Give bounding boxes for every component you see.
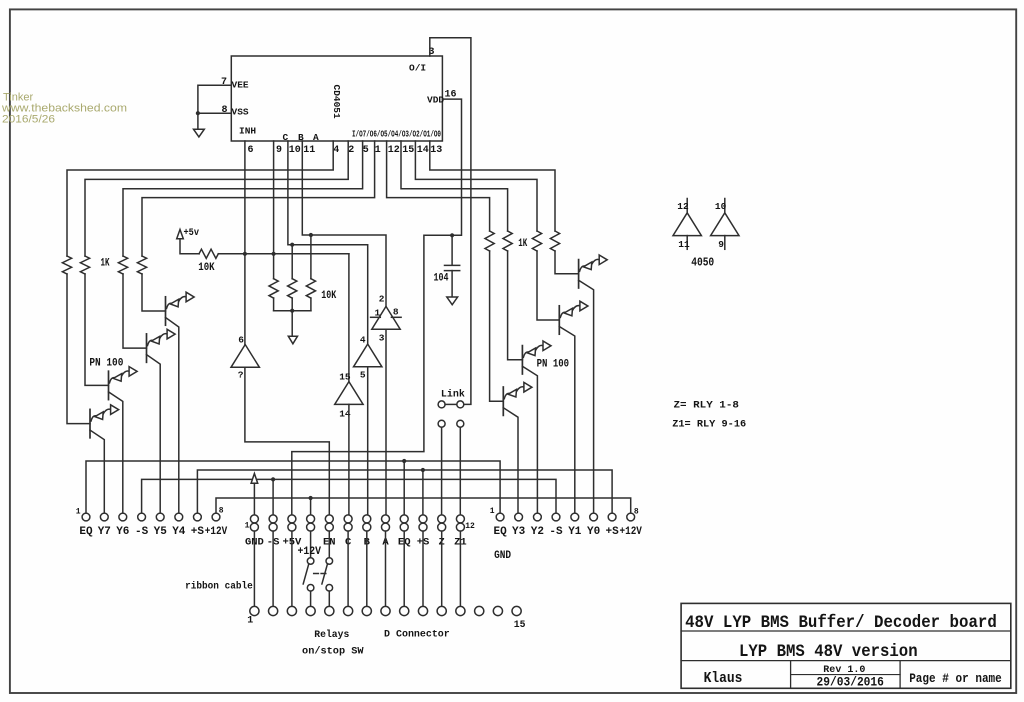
switch S2 lever xyxy=(322,564,328,584)
switch S1 bottom contact xyxy=(307,585,314,592)
connector P3 pin +S xyxy=(608,513,616,521)
header P2 col3 bottom pad xyxy=(288,523,296,531)
net -S horizontal xyxy=(142,479,556,513)
resistor R9 10K xyxy=(199,249,218,258)
buffer U2B triangle (pins 4/5) xyxy=(354,344,382,367)
wire VSS pin8 xyxy=(198,112,231,114)
svg-text:Y6: Y6 xyxy=(116,526,129,538)
svg-text:on/stop SW: on/stop SW xyxy=(302,646,364,658)
connector P1 pin Y5 xyxy=(156,513,164,521)
transistor Q3 PN100 xyxy=(109,367,138,513)
svg-text:LYP BMS 48V version: LYP BMS 48V version xyxy=(739,642,918,662)
header P2 col5 top pad xyxy=(325,515,333,523)
connector P3 pin -S xyxy=(552,513,560,521)
connector P3 pin +12V xyxy=(627,513,635,521)
wire R6 to Q6 base xyxy=(508,251,523,360)
connector J1 pin 2 xyxy=(269,606,278,615)
junction VDD/capacitor xyxy=(450,233,454,237)
svg-text:D Connector: D Connector xyxy=(384,629,450,641)
svg-text:+12V: +12V xyxy=(205,526,228,538)
title block row divider 1 xyxy=(681,630,1011,632)
connector P1 pin Y7 xyxy=(100,513,108,521)
connector P1 pin EQ xyxy=(82,513,90,521)
svg-text:10: 10 xyxy=(715,201,727,212)
connector P3 pin Y1 xyxy=(571,513,579,521)
connector J1 pin 13 xyxy=(475,606,484,615)
wire rail to ground xyxy=(291,311,293,337)
title block column dividers xyxy=(791,661,901,689)
svg-text:+5v: +5v xyxy=(184,227,200,239)
wire U1 pin2 to R2 xyxy=(85,141,348,256)
resistor R11 10K xyxy=(288,279,297,298)
svg-text:Z= RLY 1-8: Z= RLY 1-8 xyxy=(674,400,739,412)
capacitor C1 plates xyxy=(445,265,460,270)
svg-text:9: 9 xyxy=(276,145,282,156)
resistor R5 1K xyxy=(485,231,494,251)
connector J1 pin 6 xyxy=(344,606,353,615)
capacitor C1 bottom lead xyxy=(451,271,453,297)
title block box xyxy=(681,603,1011,688)
switch S1 lever xyxy=(303,564,309,584)
transistor Q5 PN100 xyxy=(503,382,532,513)
wire Link to Z1 column xyxy=(459,427,461,515)
transistor Q1 PN100 xyxy=(166,292,195,513)
wire U1 pin10 to buffer U2B (net B) xyxy=(288,141,368,344)
header P2 col1 top pad xyxy=(250,515,258,523)
U2D output stub xyxy=(686,236,688,250)
connector J1 pin 1 xyxy=(250,606,259,615)
connector J1 pin 8 xyxy=(381,606,390,615)
header P2 col11 top pad xyxy=(438,515,446,523)
junction EQ at header xyxy=(402,459,406,463)
wire U2A output to connector A xyxy=(385,329,387,515)
svg-text:8: 8 xyxy=(219,507,224,516)
connector P1 pin Y4 xyxy=(175,513,183,521)
transistor Q4 PN100 xyxy=(90,405,119,513)
wire U1 pin1 to R4 xyxy=(142,141,375,256)
svg-text:15: 15 xyxy=(514,620,526,631)
header P2 col5 bottom pad xyxy=(325,523,333,531)
svg-text:2: 2 xyxy=(379,294,385,305)
svg-text:3: 3 xyxy=(379,333,385,344)
ground symbol at C1 xyxy=(447,297,458,305)
svg-text:6: 6 xyxy=(248,145,254,156)
junction +S at header xyxy=(421,468,425,472)
wire +S to header xyxy=(422,470,424,515)
svg-text:CD4051: CD4051 xyxy=(331,85,342,120)
wire +12V to header xyxy=(310,498,312,515)
header P2 col9 top pad xyxy=(400,515,408,523)
header P2 col2 top pad xyxy=(269,515,277,523)
switch gang dashed link xyxy=(314,573,326,575)
svg-text:1: 1 xyxy=(490,507,495,516)
connector J1 pin 11 xyxy=(437,606,446,615)
header P2 col8 top pad xyxy=(382,515,390,523)
wire EQ to header xyxy=(403,461,405,515)
svg-text:104: 104 xyxy=(434,273,449,285)
U2E output stub xyxy=(724,236,726,250)
resistor R12 10K xyxy=(306,279,315,298)
svg-text:VDD: VDD xyxy=(427,95,444,106)
svg-text:1: 1 xyxy=(247,616,253,627)
svg-text:+12V: +12V xyxy=(620,526,643,538)
wire U1 pin5 to R3 xyxy=(123,141,363,256)
buffer U2A triangle (pins 2/1/8/3) xyxy=(372,306,400,329)
svg-text:ribbon cable: ribbon cable xyxy=(185,581,253,593)
junction -S at header xyxy=(271,477,275,481)
header P2 col6 top pad xyxy=(344,515,352,523)
wire switch S1 to D connector xyxy=(310,591,312,606)
ground symbol at VSS xyxy=(194,129,205,137)
svg-text:Link: Link xyxy=(441,389,465,401)
connector J1 pin 14 xyxy=(493,606,502,615)
wire P2 col6 to D connector xyxy=(347,531,349,606)
Link pad top-left xyxy=(438,401,445,408)
wire net C into buffer U2C xyxy=(348,254,350,382)
net +S horizontal xyxy=(197,470,612,513)
U2A pin8 tick xyxy=(391,316,401,318)
title block row divider 2 xyxy=(681,660,1011,662)
+5v supply arrow xyxy=(177,230,184,239)
wire U2C output to connector C xyxy=(348,404,350,515)
U2A pin1 tick xyxy=(371,316,381,318)
resistor R6 1K xyxy=(503,231,512,251)
transistor Q6 PN100 xyxy=(522,341,551,513)
svg-text:Relays: Relays xyxy=(314,629,349,641)
svg-text:EQ: EQ xyxy=(79,526,93,538)
R11 bottom lead xyxy=(291,298,293,311)
svg-text:4050: 4050 xyxy=(691,257,714,270)
svg-text:VSS: VSS xyxy=(232,107,249,118)
svg-text:7: 7 xyxy=(221,77,227,88)
svg-text:INH: INH xyxy=(239,126,256,137)
svg-text:8: 8 xyxy=(634,508,639,517)
svg-text:Y1: Y1 xyxy=(568,526,582,538)
transistor Q8 PN100 xyxy=(579,255,608,513)
svg-text:GND: GND xyxy=(494,550,511,562)
svg-text:Y4: Y4 xyxy=(172,526,186,538)
connector P3 pin EQ xyxy=(496,513,504,521)
resistor R4 1K xyxy=(137,256,146,274)
resistor R10 10K xyxy=(269,279,278,298)
wire U1 pin11 to buffer U2A (net A) xyxy=(302,141,386,306)
header P2 col10 top pad xyxy=(419,515,427,523)
svg-text:Page # or name: Page # or name xyxy=(909,671,1002,686)
junction VEE/VSS xyxy=(196,111,200,115)
wire P2 col4 to switch S1 xyxy=(310,531,312,558)
Link pad top-right xyxy=(457,401,464,408)
header P2 col1 bottom pad xyxy=(250,523,258,531)
wire P2 col5 to switch S2 xyxy=(328,531,330,558)
switch S1 top contact xyxy=(307,558,314,565)
wire U1 pin9 stub xyxy=(273,141,275,254)
wire U1 pin6 INH to EN connector pin xyxy=(245,141,329,515)
svg-text:15: 15 xyxy=(402,145,414,156)
connector J1 pin 5 xyxy=(325,606,334,615)
wire R5 to Q5 base xyxy=(490,251,504,401)
resistor R7 1K xyxy=(532,231,541,251)
R10 bottom lead xyxy=(273,298,275,311)
wire -S to header xyxy=(272,479,274,515)
Link pad bottom-right xyxy=(457,420,464,427)
resistor R8 1K xyxy=(550,231,559,251)
header P2 col7 top pad xyxy=(363,515,371,523)
wire U1 pin16 VDD to +5V connector pin xyxy=(292,99,462,515)
wire P2 col3 to D connector xyxy=(291,531,293,606)
svg-text:10K: 10K xyxy=(198,262,215,274)
svg-text:14: 14 xyxy=(417,145,429,156)
header P2 col12 bottom pad xyxy=(456,523,464,531)
switch S2 bottom contact xyxy=(326,585,333,592)
junction net A at R12 xyxy=(309,233,313,237)
wire pulldown common rail xyxy=(274,310,311,312)
wire P2 col12 to D connector xyxy=(459,531,461,606)
resistor R1 1K xyxy=(62,256,71,274)
svg-text:+S: +S xyxy=(191,526,205,538)
wire R3 to Q2 base xyxy=(123,274,147,348)
capacitor C1 top lead xyxy=(451,235,453,265)
wire P2 col11 to D connector xyxy=(441,531,443,606)
connector P1 pin +12V xyxy=(212,513,220,521)
header P2 col11 bottom pad xyxy=(438,523,446,531)
wire VEE pin7 to VSS junction xyxy=(198,85,231,113)
junction net B at R11 xyxy=(290,243,294,247)
R11 top lead xyxy=(291,245,293,279)
header P2 col4 bottom pad xyxy=(307,523,315,531)
connector J1 pin 3 xyxy=(287,606,296,615)
svg-text:8: 8 xyxy=(393,307,399,318)
buffer U2F triangle (pins 6/7) on INH line xyxy=(231,345,259,368)
wire U1 pin4 to R1 xyxy=(67,141,333,256)
svg-text:12: 12 xyxy=(388,145,400,156)
svg-text:VEE: VEE xyxy=(232,80,249,91)
svg-text:9: 9 xyxy=(718,239,724,250)
connector J1 pin 7 xyxy=(362,606,371,615)
svg-text:1: 1 xyxy=(245,522,250,531)
transistor Q2 PN100 xyxy=(147,329,176,513)
svg-text:29/03/2016: 29/03/2016 xyxy=(817,675,885,690)
connector P3 pin Y0 xyxy=(590,513,598,521)
junction net C at pin9 xyxy=(272,252,276,256)
connector P1 pin +S xyxy=(194,513,202,521)
wire R7 to Q7 base xyxy=(537,251,559,320)
svg-text:1: 1 xyxy=(375,145,381,156)
wire U1 pin15 to R6 xyxy=(401,141,508,231)
wire P2 col8 to D connector xyxy=(385,531,387,606)
svg-text:15: 15 xyxy=(339,372,351,383)
wire R4 to Q1 base xyxy=(142,274,166,311)
R12 bottom lead xyxy=(310,298,312,311)
wire +5v to R9 xyxy=(180,239,199,254)
wire P2 col2 to D connector xyxy=(272,531,274,606)
wire R8 to Q8 base xyxy=(555,251,579,274)
connector J1 pin 9 xyxy=(400,606,409,615)
header P2 col7 bottom pad xyxy=(363,523,371,531)
svg-text:?: ? xyxy=(238,370,244,381)
wire U1 pin12 to R5 xyxy=(387,141,490,231)
svg-text:Y3: Y3 xyxy=(512,526,526,538)
resistor R2 1K xyxy=(80,256,89,274)
header P2 col4 top pad xyxy=(307,515,315,523)
header P2 col2 bottom pad xyxy=(269,523,277,531)
header P2 col3 top pad xyxy=(288,515,296,523)
svg-text:O/I: O/I xyxy=(409,63,426,74)
Link pad bottom-left xyxy=(438,420,445,427)
header P2 col8 bottom pad xyxy=(382,523,390,531)
header P2 col6 bottom pad xyxy=(344,523,352,531)
wire U1 pin13 to R8 xyxy=(430,141,555,231)
wire R1 to Q4 base xyxy=(67,274,90,424)
connector J1 pin 10 xyxy=(418,606,427,615)
svg-text:+S: +S xyxy=(605,526,619,538)
svg-text:2: 2 xyxy=(348,145,354,156)
svg-text:1K: 1K xyxy=(518,238,527,250)
op IC U1 CD4051 body xyxy=(231,56,442,141)
junction +12V at header xyxy=(309,496,313,500)
junction pulldown rail xyxy=(290,309,294,313)
wire R9 to buffer U2C column (net C / pin9) xyxy=(218,253,349,255)
svg-text:4: 4 xyxy=(333,145,339,156)
wire VSS to ground xyxy=(197,113,199,129)
connector P3 pin Y2 xyxy=(534,513,542,521)
svg-text:-S: -S xyxy=(135,526,149,538)
svg-text:+12V: +12V xyxy=(297,546,321,558)
svg-text:Y0: Y0 xyxy=(587,526,600,538)
wire R2 to Q3 base xyxy=(85,274,109,385)
svg-text:A: A xyxy=(313,132,319,143)
connector P3 pin Y3 xyxy=(515,513,523,521)
svg-text:1K: 1K xyxy=(101,258,110,270)
svg-text:11: 11 xyxy=(303,145,315,156)
Link jumper wire xyxy=(445,403,457,405)
buffer U2D triangle xyxy=(673,213,701,236)
svg-text:11: 11 xyxy=(678,239,690,250)
buffer U2C triangle (pins 15/14) xyxy=(335,382,363,405)
svg-text:Klaus: Klaus xyxy=(704,671,743,687)
connector J1 pin 15 xyxy=(512,606,521,615)
R12 top lead xyxy=(310,235,312,279)
title block rev cell divider xyxy=(791,674,901,676)
wire Link to Z column xyxy=(441,427,443,515)
header P2 col9 bottom pad xyxy=(400,523,408,531)
R10 top lead xyxy=(273,254,275,279)
svg-text:48V LYP BMS Buffer/ Decoder bo: 48V LYP BMS Buffer/ Decoder board xyxy=(685,613,997,633)
svg-text:12: 12 xyxy=(465,522,475,531)
wire P2 col9 to D connector xyxy=(403,531,405,606)
svg-text:1: 1 xyxy=(76,508,81,517)
connector J1 pin 4 xyxy=(306,606,315,615)
svg-text:10K: 10K xyxy=(321,290,336,302)
U2E input stub xyxy=(724,199,726,213)
wire P2 col10 to D connector xyxy=(422,531,424,606)
svg-text:5: 5 xyxy=(360,370,366,381)
net EQ horizontal xyxy=(86,461,500,513)
svg-text:Y5: Y5 xyxy=(154,526,168,538)
connector P1 pin -S xyxy=(138,513,146,521)
svg-text:PN 100: PN 100 xyxy=(537,359,570,371)
svg-text:4: 4 xyxy=(360,335,366,346)
buffer U2E triangle xyxy=(711,213,739,236)
connector P1 pin Y6 xyxy=(119,513,127,521)
wire U1 pin14 to R7 xyxy=(415,141,537,231)
ground symbol pulldowns xyxy=(288,336,297,344)
svg-text:6: 6 xyxy=(238,335,244,346)
svg-text:I/O7/O6/O5/O4/O3/O2/O1/O0: I/O7/O6/O5/O4/O3/O2/O1/O0 xyxy=(352,129,441,140)
connector J1 pin 12 xyxy=(456,606,465,615)
GND header arrow xyxy=(251,474,258,484)
svg-text:5: 5 xyxy=(363,145,369,156)
U2D input stub xyxy=(686,199,688,213)
resistor R3 1K xyxy=(118,256,127,274)
svg-text:PN 100: PN 100 xyxy=(89,358,123,370)
wire U1 pin3 to Link xyxy=(430,38,471,405)
svg-text:12: 12 xyxy=(677,201,689,212)
transistor Q7 PN100 xyxy=(559,301,588,513)
svg-text:EQ: EQ xyxy=(493,526,507,538)
svg-text:13: 13 xyxy=(430,145,442,156)
net +12V horizontal xyxy=(216,498,631,513)
wire P2 col7 to D connector xyxy=(366,531,368,606)
switch S2 top contact xyxy=(326,558,333,565)
svg-text:2016/5/26: 2016/5/26 xyxy=(2,114,55,126)
junction INH/+5v pullup xyxy=(243,252,247,256)
svg-text:-S: -S xyxy=(549,526,563,538)
svg-text:B: B xyxy=(298,132,304,143)
wire P2 col1 to D connector xyxy=(253,531,255,606)
svg-text:10: 10 xyxy=(289,145,301,156)
header P2 col10 bottom pad xyxy=(419,523,427,531)
svg-text:Y2: Y2 xyxy=(531,526,544,538)
wire GND arrow to header xyxy=(253,483,255,515)
wire switch S2 to D connector xyxy=(328,591,330,606)
header P2 col12 top pad xyxy=(456,515,464,523)
svg-text:Y7: Y7 xyxy=(98,526,111,538)
svg-text:Z1= RLY 9-16: Z1= RLY 9-16 xyxy=(672,419,746,431)
svg-text:8: 8 xyxy=(222,105,228,116)
wire U2B output to connector B xyxy=(367,367,369,515)
